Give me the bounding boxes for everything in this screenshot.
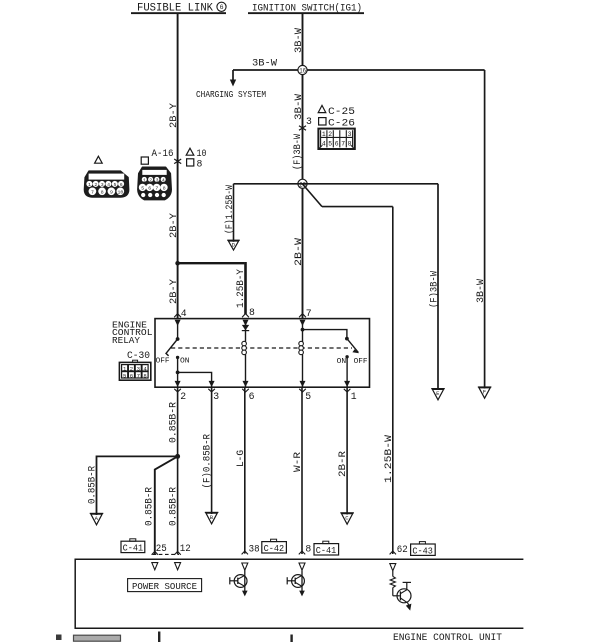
svg-text:ON: ON — [337, 358, 347, 366]
svg-text:3: 3 — [348, 131, 352, 138]
svg-text:3B-W: 3B-W — [293, 94, 304, 120]
off-page arrow C — [340, 513, 354, 524]
svg-text:7: 7 — [306, 308, 312, 319]
relay pin 4 entry terminal — [174, 314, 181, 318]
svg-text:5: 5 — [114, 182, 117, 188]
svg-text:C-25: C-25 — [328, 106, 355, 117]
svg-text:1.25B-W: 1.25B-W — [383, 435, 394, 483]
wire pin 3 down — [211, 387, 213, 514]
wire coil 1 to pin 6 — [245, 354, 247, 387]
wire pin 6 down — [244, 387, 246, 553]
node pin 7 branch — [301, 328, 305, 332]
svg-text:RELAY: RELAY — [112, 336, 141, 346]
connector label box C-41 left — [121, 539, 145, 554]
relay pin 7 wire — [302, 324, 304, 342]
header IGNITION SWITCH(IG1) — [248, 3, 364, 15]
wire coil 2 to pin 5 — [302, 354, 304, 387]
terminal flare pin 25 — [152, 551, 158, 554]
junction circle 20 — [298, 179, 307, 188]
svg-text:6: 6 — [249, 391, 255, 402]
svg-text:3B-W: 3B-W — [293, 28, 304, 53]
svg-text:1: 1 — [351, 391, 357, 402]
label POWER SOURCE — [128, 579, 202, 592]
ECU transistor at pin 8 — [287, 570, 305, 596]
svg-text:2: 2 — [94, 182, 97, 188]
svg-text:9: 9 — [110, 189, 113, 195]
svg-text:2B-Y: 2B-Y — [168, 279, 179, 304]
svg-text:8: 8 — [143, 372, 146, 379]
svg-text:A-16: A-16 — [152, 148, 174, 159]
dashed mechanical link — [171, 347, 352, 349]
svg-text:0.85B-R: 0.85B-R — [143, 487, 154, 526]
svg-text:C-41: C-41 — [123, 544, 144, 554]
wire 3B-W right drop from bus — [484, 70, 486, 389]
wire ignition vertical — [302, 14, 304, 319]
connector label box C-41 right — [314, 541, 339, 556]
svg-text:10: 10 — [197, 148, 207, 159]
ECU entry triangle pin 25 — [152, 563, 158, 570]
svg-text:12: 12 — [180, 543, 191, 554]
label triangle 10 — [186, 148, 194, 155]
svg-text:2B-Y: 2B-Y — [168, 103, 179, 128]
ECU transistor at pin 38 — [230, 570, 248, 596]
ECU entry triangle pin 38 — [242, 563, 248, 570]
relay pin 2 exit terminal — [175, 381, 181, 387]
right switch blade — [347, 339, 359, 353]
svg-text:0.85B-R: 0.85B-R — [87, 466, 98, 504]
svg-text:(F)3B-W: (F)3B-W — [429, 271, 440, 308]
connector A-16 face view (8-pin, square type) — [138, 167, 171, 199]
relay pin 6 exit terminal — [243, 381, 249, 387]
label ENGINE CONTROL RELAY — [112, 320, 153, 346]
svg-text:CHARGING SYSTEM: CHARGING SYSTEM — [196, 90, 266, 100]
terminal flare pin 38 — [242, 551, 248, 554]
svg-text:2B-Y: 2B-Y — [168, 213, 179, 238]
svg-text:5: 5 — [328, 141, 332, 148]
arrow to charging system — [230, 80, 236, 87]
svg-text:6: 6 — [220, 4, 224, 11]
svg-text:OFF: OFF — [156, 358, 170, 366]
node left switch pivot — [176, 337, 180, 341]
svg-text:8: 8 — [101, 189, 104, 195]
relay pin 8 entry terminal — [242, 314, 249, 318]
node right switch pivot — [345, 337, 349, 341]
svg-text:F: F — [483, 389, 486, 396]
svg-text:1: 1 — [143, 177, 146, 183]
left switch blade — [166, 339, 178, 356]
ECU entry triangle pin 12 — [175, 563, 181, 570]
wire horizontal bus y=70 — [233, 69, 485, 71]
dashed connector line C-41 — [153, 553, 179, 555]
svg-text:4: 4 — [322, 141, 326, 148]
svg-text:1.25B-Y: 1.25B-Y — [235, 269, 246, 308]
bottom edge scan artifacts — [56, 632, 293, 642]
svg-text:3: 3 — [137, 365, 140, 372]
junction dot on fusible wire — [175, 261, 180, 266]
svg-text:7: 7 — [137, 372, 140, 379]
svg-text:0.85B-R: 0.85B-R — [167, 487, 178, 526]
svg-text:ON: ON — [180, 358, 190, 366]
off-page arrow F — [478, 387, 492, 398]
wire left switch to pin 2 — [177, 357, 179, 387]
wire branch left — [97, 456, 178, 515]
svg-text:8: 8 — [163, 185, 166, 191]
svg-text:62: 62 — [397, 544, 408, 555]
ECU entry triangle pin 62 — [390, 564, 396, 571]
svg-text:8: 8 — [348, 141, 352, 148]
relay pin 3 exit terminal — [209, 381, 215, 387]
svg-text:8: 8 — [197, 158, 203, 169]
relay coil 1 — [242, 341, 247, 354]
svg-text:3: 3 — [213, 391, 219, 402]
svg-text:6: 6 — [148, 185, 151, 191]
svg-text:7: 7 — [341, 141, 345, 148]
terminal flare pin 12 — [174, 551, 180, 554]
svg-text:(F)1.25B-W: (F)1.25B-W — [224, 185, 235, 234]
svg-text:0.85B-R: 0.85B-R — [167, 402, 178, 443]
svg-text:(F)0.85B-R: (F)0.85B-R — [202, 434, 213, 489]
svg-text:4: 4 — [107, 182, 110, 188]
relay pin 1 exit terminal — [344, 381, 350, 387]
svg-text:3: 3 — [306, 116, 312, 127]
svg-text:3B-W: 3B-W — [475, 279, 486, 303]
svg-text:4: 4 — [162, 177, 165, 183]
wire diagonal from junction 20 to 1.25B-W drop — [303, 184, 323, 207]
svg-text:16: 16 — [299, 68, 306, 75]
label C-25 with triangle — [318, 105, 326, 112]
connector C-30 pin box — [119, 360, 150, 380]
relay pin 5 exit terminal — [300, 381, 306, 387]
svg-text:25: 25 — [156, 543, 167, 554]
ECU resistor + transistor at pin 62 — [390, 571, 411, 611]
terminal flare pin 8 C-41 — [299, 551, 305, 554]
svg-text:C-26: C-26 — [328, 118, 355, 129]
svg-text:1: 1 — [322, 131, 326, 138]
wire right switch to pin 1 — [346, 357, 348, 387]
label square 8 — [187, 159, 194, 166]
connector mark X on fusible wire (A-16) — [174, 159, 181, 164]
wire branch to right switch — [303, 330, 347, 339]
ECU box — [75, 559, 523, 628]
wire charging-system drop — [232, 70, 234, 81]
svg-text:2: 2 — [149, 177, 152, 183]
svg-text:8: 8 — [249, 307, 255, 318]
svg-text:1: 1 — [88, 182, 91, 188]
wire from junction 20 right to (F)3B-W drop — [303, 183, 439, 185]
svg-text:3B-W: 3B-W — [252, 58, 277, 69]
connector label box C-42 — [262, 539, 287, 554]
svg-text:5: 5 — [141, 185, 144, 191]
svg-text:4: 4 — [181, 308, 187, 319]
wire pin 1 down — [346, 387, 348, 514]
node left switch ON contact — [176, 356, 179, 359]
off-page arrow E — [431, 389, 445, 400]
connector C-25/C-26 pin box — [318, 129, 354, 149]
svg-text:5: 5 — [305, 391, 311, 402]
junction circle 16 — [298, 65, 307, 74]
svg-text:10: 10 — [118, 189, 124, 195]
relay box ENGINE CONTROL RELAY — [155, 319, 370, 388]
connector mark X on ignition wire (C-25/26) — [299, 126, 306, 131]
svg-text:2B-R: 2B-R — [337, 451, 348, 477]
svg-text:C-42: C-42 — [264, 544, 285, 554]
wire branch to pin 3 — [178, 372, 212, 387]
svg-text:2: 2 — [130, 365, 133, 372]
svg-text:6: 6 — [130, 372, 133, 379]
wire pin 5 down — [301, 387, 303, 554]
off-page arrow D — [227, 240, 240, 250]
node junction on pin 2 wire — [175, 454, 180, 459]
svg-text:38: 38 — [249, 544, 260, 555]
svg-text:C-41: C-41 — [316, 546, 337, 556]
svg-text:ENGINE CONTROL UNIT: ENGINE CONTROL UNIT — [393, 633, 502, 642]
svg-text:C-30: C-30 — [127, 350, 150, 361]
relay diode on pin 8 — [245, 324, 247, 342]
wire thick branch to relay pin 8 — [178, 262, 245, 264]
triangle icon left of A-16 — [95, 156, 103, 163]
svg-text:5: 5 — [123, 372, 126, 379]
relay pin 7 entry terminal — [299, 314, 306, 318]
svg-text:2: 2 — [180, 391, 186, 402]
svg-text:C-43: C-43 — [412, 546, 433, 556]
node right switch ON contact — [345, 355, 348, 358]
svg-text:2B-W: 2B-W — [293, 238, 304, 266]
node branch to pin 3 — [176, 371, 180, 375]
wire diagonal branch to pin 25 — [155, 456, 178, 554]
svg-text:(F)3B-W: (F)3B-W — [292, 134, 303, 170]
wire pin 2 down — [177, 387, 179, 554]
connector A-16 face view (10-pin, triangle type) — [85, 171, 129, 197]
label C-26 with square — [319, 118, 326, 125]
svg-text:3: 3 — [156, 177, 159, 183]
svg-text:3: 3 — [101, 182, 104, 188]
svg-text:L-G: L-G — [235, 450, 246, 467]
off-page arrow B — [205, 512, 219, 523]
terminal flare pin 62 — [390, 551, 396, 554]
wire from junction 20 left to (F)1.25B-W branch — [234, 183, 303, 185]
svg-text:W-R: W-R — [292, 452, 303, 472]
off-page arrow A — [90, 513, 104, 524]
svg-text:8: 8 — [305, 544, 311, 555]
relay left switch wire from pin 4 — [177, 324, 179, 339]
svg-text:6: 6 — [335, 141, 339, 148]
svg-text:2: 2 — [328, 131, 332, 138]
svg-text:7: 7 — [91, 189, 94, 195]
svg-text:6: 6 — [120, 182, 123, 188]
square icon left of A-16 — [141, 157, 148, 164]
header FUSIBLE LINK 6 — [131, 2, 226, 14]
wire fusible-link vertical 2B-Y — [177, 14, 179, 319]
connector label box C-43 — [411, 542, 436, 557]
svg-text:OFF: OFF — [354, 358, 368, 366]
relay coil 2 — [299, 341, 304, 354]
svg-text:7: 7 — [155, 185, 158, 191]
ECU entry triangle pin 8 — [299, 563, 305, 570]
svg-text:POWER SOURCE: POWER SOURCE — [132, 582, 197, 592]
